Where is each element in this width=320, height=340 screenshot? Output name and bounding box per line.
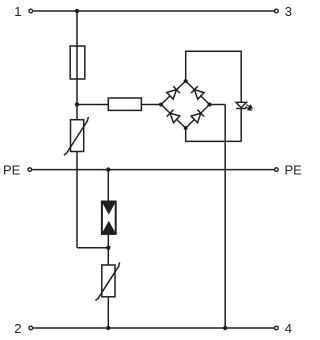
junction node at top wire x=77 bbox=[75, 9, 79, 13]
wire: bridge right node to vertical drop bbox=[210, 104, 226, 106]
terminal PE left bbox=[28, 168, 32, 172]
terminal 2 bbox=[29, 326, 33, 330]
junction node bridge right bbox=[208, 103, 212, 107]
wire: DC+ loop from bridge top node up and right to LED bbox=[186, 51, 242, 102]
diode D1 (left node to top node) bbox=[167, 86, 180, 99]
junction node bridge top bbox=[184, 79, 188, 83]
junction node bridge bottom bbox=[184, 126, 188, 130]
terminal 4 bbox=[275, 326, 279, 330]
wire: DC- loop from LED bottom left and up to bridge bottom node bbox=[186, 128, 242, 141]
svg-text:2: 2 bbox=[14, 321, 21, 336]
LED V1 bbox=[236, 102, 252, 110]
svg-text:PE: PE bbox=[3, 162, 21, 177]
svg-text:PE: PE bbox=[285, 162, 303, 177]
terminal PE right bbox=[275, 168, 279, 172]
wire: bridge edge bottom-left bbox=[161, 105, 186, 129]
wire: horizontal link to suppressor branch bbox=[77, 247, 108, 249]
wire: PE line from left PE to right PE bbox=[32, 169, 274, 171]
svg-text:3: 3 bbox=[285, 4, 292, 19]
junction node bottom line / varistor2 bbox=[106, 326, 110, 330]
wire: varistor2 down to bottom line bbox=[107, 297, 109, 328]
svg-text:4: 4 bbox=[285, 321, 292, 336]
junction node link bbox=[106, 246, 110, 250]
wire: top line from terminal 1 to terminal 3 bbox=[33, 10, 274, 12]
diode D4 (bottom node to right node) bbox=[191, 110, 204, 123]
fuse F1 bbox=[70, 46, 85, 79]
diode D2 (right node to top node) bbox=[191, 86, 204, 99]
wire: junction to resistor bbox=[77, 104, 108, 106]
wire: bottom line from terminal 2 to terminal 4 bbox=[33, 327, 274, 329]
wire: main left vertical through fuse bbox=[76, 11, 78, 120]
surge suppressor (gas discharge tube) F2 bbox=[101, 201, 116, 235]
terminal 1 bbox=[29, 9, 33, 13]
wire: bridge edge left-top bbox=[161, 81, 186, 105]
junction node PE / suppressor bbox=[106, 167, 110, 171]
varistor RV1 bbox=[64, 117, 88, 155]
junction node bridge left bbox=[159, 103, 163, 107]
wire: resistor to bridge left node bbox=[141, 104, 161, 106]
varistor RV2 bbox=[95, 262, 119, 300]
wire: varistor1 bottom down to link node bbox=[76, 152, 78, 248]
wire: right vertical drop to bottom line bbox=[224, 105, 226, 329]
diode D3 (bottom node to left node) bbox=[167, 110, 180, 123]
junction node bottom line / right drop bbox=[223, 326, 227, 330]
wire: bridge edge top-right bbox=[186, 81, 210, 105]
resistor R1 bbox=[108, 98, 141, 110]
wire: suppressor to link node bbox=[107, 234, 109, 265]
LED emission arrows bbox=[245, 105, 252, 111]
svg-text:1: 1 bbox=[14, 4, 21, 19]
terminal 3 bbox=[275, 9, 279, 13]
wire: bridge edge right-bottom bbox=[186, 105, 210, 129]
junction node resistor tap bbox=[75, 102, 79, 106]
wire: LED cathode down bbox=[240, 108, 242, 141]
wire: PE junction down to suppressor bbox=[107, 170, 109, 202]
